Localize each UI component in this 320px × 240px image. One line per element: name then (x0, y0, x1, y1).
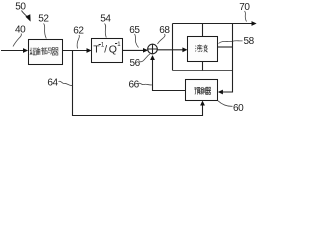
svg-text:58: 58 (244, 36, 255, 47)
svg-text:Q: Q (109, 43, 117, 55)
wire: filter bottom tick to y=70 (202, 62, 204, 71)
wire: filter output right to x=232 (218, 46, 233, 48)
glyph 熵 (30, 48, 37, 55)
wire: output rail to 70 (173, 21, 257, 26)
label 56 (130, 54, 151, 69)
label 50 (figure pointer) (15, 1, 30, 21)
block 52: entropy decoder 熵解码器 (29, 40, 63, 65)
svg-text:60: 60 (233, 103, 244, 114)
svg-text:54: 54 (100, 13, 111, 24)
svg-text:50: 50 (15, 1, 26, 12)
svg-text:T: T (93, 43, 100, 55)
label 60 (218, 101, 244, 114)
label 66 (129, 79, 152, 90)
label 40 (13, 24, 26, 46)
label 54 (100, 13, 111, 37)
glyph 器 (52, 48, 59, 56)
wire 65: T-1/Q-1 to adder (123, 48, 149, 53)
label 62 (73, 25, 84, 48)
svg-text:56: 56 (130, 58, 141, 69)
wire: vertical riser x=172 from rail to y=70 (172, 24, 174, 71)
label 52 (38, 13, 49, 38)
block 60: predictor 预测器 (186, 80, 218, 101)
glyph 滤 (195, 45, 201, 53)
wire 62: entropy decoder to T-1/Q-1, with junction down (63, 48, 92, 53)
wire: adder to filter, crossing node at x=172 (157, 47, 187, 52)
label 68 (158, 25, 171, 44)
wire: vertical x=232 from rail down, into predictor right (218, 24, 233, 95)
glyph 测 (200, 87, 205, 94)
adder 68 (summer circle with plus) (147, 44, 157, 54)
glyph 器 (predictor) (206, 87, 211, 94)
glyph 解 (37, 47, 44, 55)
glyph 波 (202, 45, 208, 53)
svg-text:52: 52 (38, 13, 49, 24)
svg-text:66: 66 (129, 79, 140, 90)
glyph 预 (194, 87, 200, 94)
wire: rail down into filter top (202, 24, 204, 37)
wire: input 40 into entropy decoder (1, 48, 28, 53)
label 58 (219, 36, 255, 47)
svg-text:64: 64 (47, 77, 58, 88)
svg-text:40: 40 (15, 24, 26, 35)
label 70 (239, 2, 250, 22)
label 64 (47, 77, 72, 88)
wire 64: junction down, across bottom, up into predictor (73, 51, 205, 116)
glyph 码 (44, 48, 51, 54)
wire 66: predictor output left, up into adder bottom (150, 55, 185, 91)
svg-text:62: 62 (73, 25, 84, 36)
block 54: T-1/Q-1 (92, 39, 123, 63)
block 58: filter 滤波 (188, 37, 218, 62)
label 65 (129, 25, 140, 48)
wire: horizontal link y=70 (173, 70, 233, 72)
